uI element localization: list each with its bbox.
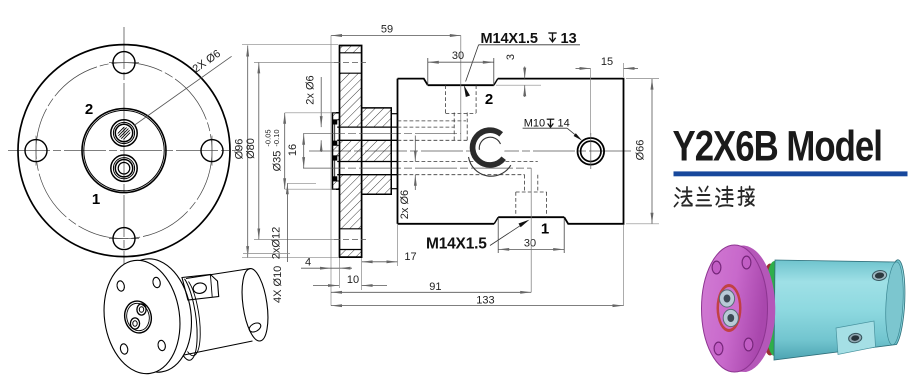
bolt hole right: [201, 140, 223, 162]
iso top pad with port: [182, 274, 219, 300]
M10 hole centerline: [590, 133, 592, 169]
3d red ring: [760, 264, 780, 356]
svg-text:91: 91: [429, 281, 441, 293]
svg-text:M10: M10: [524, 117, 545, 129]
port 1 centerline extension: [530, 168, 532, 292]
dim Ø96 (left): [247, 46, 249, 258]
svg-text:15: 15: [601, 56, 613, 68]
svg-text:2: 2: [485, 91, 493, 108]
svg-text:133: 133: [476, 294, 494, 306]
svg-text:4: 4: [305, 257, 311, 269]
bolt hole left: [25, 140, 47, 162]
svg-text:30: 30: [524, 237, 536, 249]
dim 16 (port spacing): [303, 134, 305, 168]
flange plate (section, hatched): [340, 46, 362, 258]
top milled flat (port 2): [428, 84, 494, 86]
title Y2X6B Model: [673, 123, 882, 170]
svg-text:1: 1: [541, 221, 549, 238]
spigot Ø35 (section, hatched): [333, 113, 340, 189]
leader for M10: [523, 127, 568, 129]
iso hub and ports: [122, 299, 154, 336]
dim 2xØ6 (flange ports): [320, 77, 322, 127]
svg-text:2: 2: [85, 101, 93, 118]
dim 30 (top flat): [428, 61, 494, 63]
blue underline: [674, 171, 908, 176]
svg-text:Ø80: Ø80: [245, 138, 257, 159]
flange port channels (bold lines): [337, 126, 397, 128]
hidden: main bore line: [398, 120, 467, 122]
isometric view of part: [97, 254, 272, 379]
dim 15 (top right): [576, 67, 591, 69]
hidden: channel 2 in body: [398, 126, 455, 128]
svg-text:-0.10: -0.10: [272, 129, 281, 146]
dim 30 (bottom flat): [498, 248, 564, 250]
flange outer circle Ø96: [18, 45, 230, 257]
iso bolt holes: [116, 280, 125, 292]
svg-text:4X Ø10: 4X Ø10: [272, 266, 284, 303]
hidden: port 1 riser Ø6: [524, 175, 526, 192]
retaining ring (C shape): [469, 130, 511, 176]
front view: flange face: [8, 27, 242, 279]
extension line x=331 (datum): [330, 36, 332, 306]
3d body cylinder: [774, 260, 905, 360]
dim 2xØ12: [286, 183, 288, 262]
dim 10: [313, 285, 339, 287]
svg-text:14: 14: [558, 117, 570, 129]
bolt centerlines in section: [334, 61, 366, 63]
svg-text:3: 3: [505, 54, 517, 60]
hidden: channel 1 in body: [398, 161, 538, 163]
svg-text:30: 30: [452, 50, 464, 62]
body pilot between hub and body: [391, 113, 397, 115]
3d render: product photo: [702, 245, 906, 372]
bolt hole top: [113, 52, 135, 74]
bolt circle Ø80 (dashed): [36, 63, 212, 239]
label 4X Ø10: [243, 253, 290, 255]
hidden: port 2 thread M14: [445, 85, 447, 113]
svg-text:17: 17: [404, 251, 416, 263]
o-ring seals on spigot face: [333, 120, 338, 125]
bolt hole bottom: [113, 228, 135, 250]
hub inner circle Ø35: [84, 110, 164, 190]
dim 133: [331, 305, 624, 307]
dim Ø80 (left): [258, 62, 260, 239]
wire: horizontal centerline: [8, 150, 242, 152]
port 2 centerline / extension: [460, 36, 462, 141]
dim 4 (bottom): [301, 267, 352, 269]
iso flange disc: [97, 255, 187, 378]
hub behind flange (section, hatched): [362, 108, 392, 194]
iso body cylinder: [186, 269, 251, 279]
dim 3 (flat depth): [524, 67, 526, 79]
svg-text:59: 59: [381, 24, 393, 36]
leader for bottom M14X1.5: [490, 221, 527, 245]
caption 法兰连接 (drawn strokes): [674, 187, 754, 207]
dim 17: [362, 261, 398, 263]
body Ø66 outline: [398, 79, 624, 224]
bolt hole centerline ticks: [109, 62, 139, 64]
hidden: port 2 riser Ø6: [453, 113, 455, 141]
dim Ø66 (right): [651, 79, 653, 224]
channel centerline port 2: [303, 133, 461, 135]
leader to 2X Ø6 label: [134, 56, 232, 125]
svg-text:1: 1: [92, 191, 100, 208]
bottom milled flat (port 1): [498, 216, 564, 218]
iso flange back rim: [108, 254, 198, 377]
3d center ports: [717, 284, 742, 332]
hub outer circle: [82, 109, 166, 193]
svg-text:Ø35: Ø35: [272, 151, 284, 172]
port counterbore edges at spigot: [333, 119, 340, 121]
svg-text:2x Ø6: 2x Ø6: [305, 75, 317, 104]
svg-text:M14X1.5: M14X1.5: [426, 236, 487, 253]
hidden: port 1 thread M14: [515, 192, 517, 217]
dim 2x Ø6 (body channels): [414, 136, 416, 162]
3d M10 hole top right: [872, 270, 888, 282]
svg-text:16: 16: [287, 144, 299, 156]
svg-text:Ø96: Ø96: [234, 139, 246, 160]
3d flange disc: [705, 246, 775, 373]
section view main axis: [309, 150, 634, 152]
svg-text:10: 10: [347, 274, 359, 286]
iso neck rings: [183, 279, 197, 360]
channel centerline port 1: [303, 167, 531, 169]
dim 91: [331, 291, 531, 293]
3d bolt holes: [712, 261, 721, 274]
wire: vertical centerline: [123, 27, 125, 279]
dim 59 (top): [331, 35, 461, 37]
3d green gasket ring: [764, 261, 785, 356]
port 2 fitting: [111, 120, 137, 146]
iso M10 hole: [248, 321, 263, 334]
dim Ø35 with tolerance: [284, 113, 286, 189]
port 1 fitting: [111, 155, 137, 181]
svg-text:2xØ12: 2xØ12: [271, 227, 283, 259]
svg-text:2x Ø6: 2x Ø6: [399, 190, 411, 219]
leader underline + line for top M14X1.5: [479, 44, 580, 46]
counterbore bottom edges at spigot: [334, 121, 336, 145]
3d bottom pad with port: [836, 321, 876, 355]
svg-text:Y2X6B Model: Y2X6B Model: [673, 123, 882, 170]
M10 side hole: [578, 138, 605, 165]
svg-text:Ø66: Ø66: [635, 140, 647, 161]
